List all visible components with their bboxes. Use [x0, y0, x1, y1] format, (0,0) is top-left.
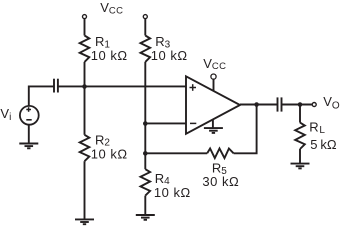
svg-text:30 kΩ: 30 kΩ — [202, 174, 239, 189]
wire: op-amp output — [240, 104, 278, 106]
node junction at R1/R2 divider — [82, 84, 87, 89]
wire: R5 to output junction — [234, 105, 257, 154]
wire: RL junction down — [299, 105, 301, 123]
wire: junction to R2 — [84, 86, 86, 134]
svg-text:10 kΩ: 10 kΩ — [151, 48, 188, 63]
ground (op-amp) — [204, 128, 223, 133]
resistor R2 — [80, 135, 90, 161]
ground (RL) — [291, 164, 310, 169]
op-amp VCC terminal — [211, 74, 216, 79]
capacitor C1 (input coupling) — [54, 79, 58, 93]
wire: R3 down through crossing to minus-input node — [144, 62, 146, 153]
wire: RL to ground — [299, 149, 301, 164]
ground (R2) — [75, 219, 94, 224]
resistor R1 — [80, 36, 90, 62]
wire: minus input to op-amp — [145, 122, 186, 124]
wire: junction to R4 — [144, 153, 146, 169]
svg-text:5 kΩ: 5 kΩ — [310, 137, 337, 152]
svg-text:10 kΩ: 10 kΩ — [154, 185, 191, 200]
resistor R5 — [207, 149, 233, 159]
op-amp U1 — [186, 76, 240, 134]
wire: VCC terminal to R1 — [84, 19, 86, 36]
wire: R4 to ground — [144, 196, 146, 215]
node junction at output — [254, 102, 259, 107]
node junction at RL — [298, 102, 303, 107]
resistor R3 — [141, 36, 151, 62]
wire: feedback from minus node to R5 — [145, 152, 207, 154]
VCC terminal (left) — [83, 15, 87, 19]
Vo terminal — [312, 103, 316, 107]
resistor RL — [295, 123, 305, 149]
wire: VCC terminal to op-amp top edge — [213, 79, 215, 91]
VCC terminal (R3) — [143, 15, 147, 19]
wire: VCC terminal to R3 — [144, 19, 146, 36]
svg-text:10 kΩ: 10 kΩ — [91, 146, 128, 161]
wire: capacitor to op-amp plus input — [58, 85, 186, 87]
wire: op-amp bottom edge to ground — [212, 120, 214, 129]
node junction at R4/feedback — [143, 151, 148, 156]
wire: R2 to ground — [84, 161, 86, 219]
wire: Vi to input capacitor — [29, 86, 54, 105]
wire: R1 to junction — [84, 62, 86, 87]
svg-text:10 kΩ: 10 kΩ — [91, 48, 128, 63]
wire: Vi to ground — [28, 125, 30, 144]
resistor R4 — [141, 169, 151, 195]
wire: capacitor to Vo terminal — [282, 104, 313, 106]
voltage source Vi — [20, 106, 39, 125]
ground (source) — [19, 144, 38, 149]
node junction at minus input — [143, 121, 148, 126]
ground (R4) — [136, 215, 155, 220]
capacitor C2 (output coupling) — [278, 97, 282, 111]
